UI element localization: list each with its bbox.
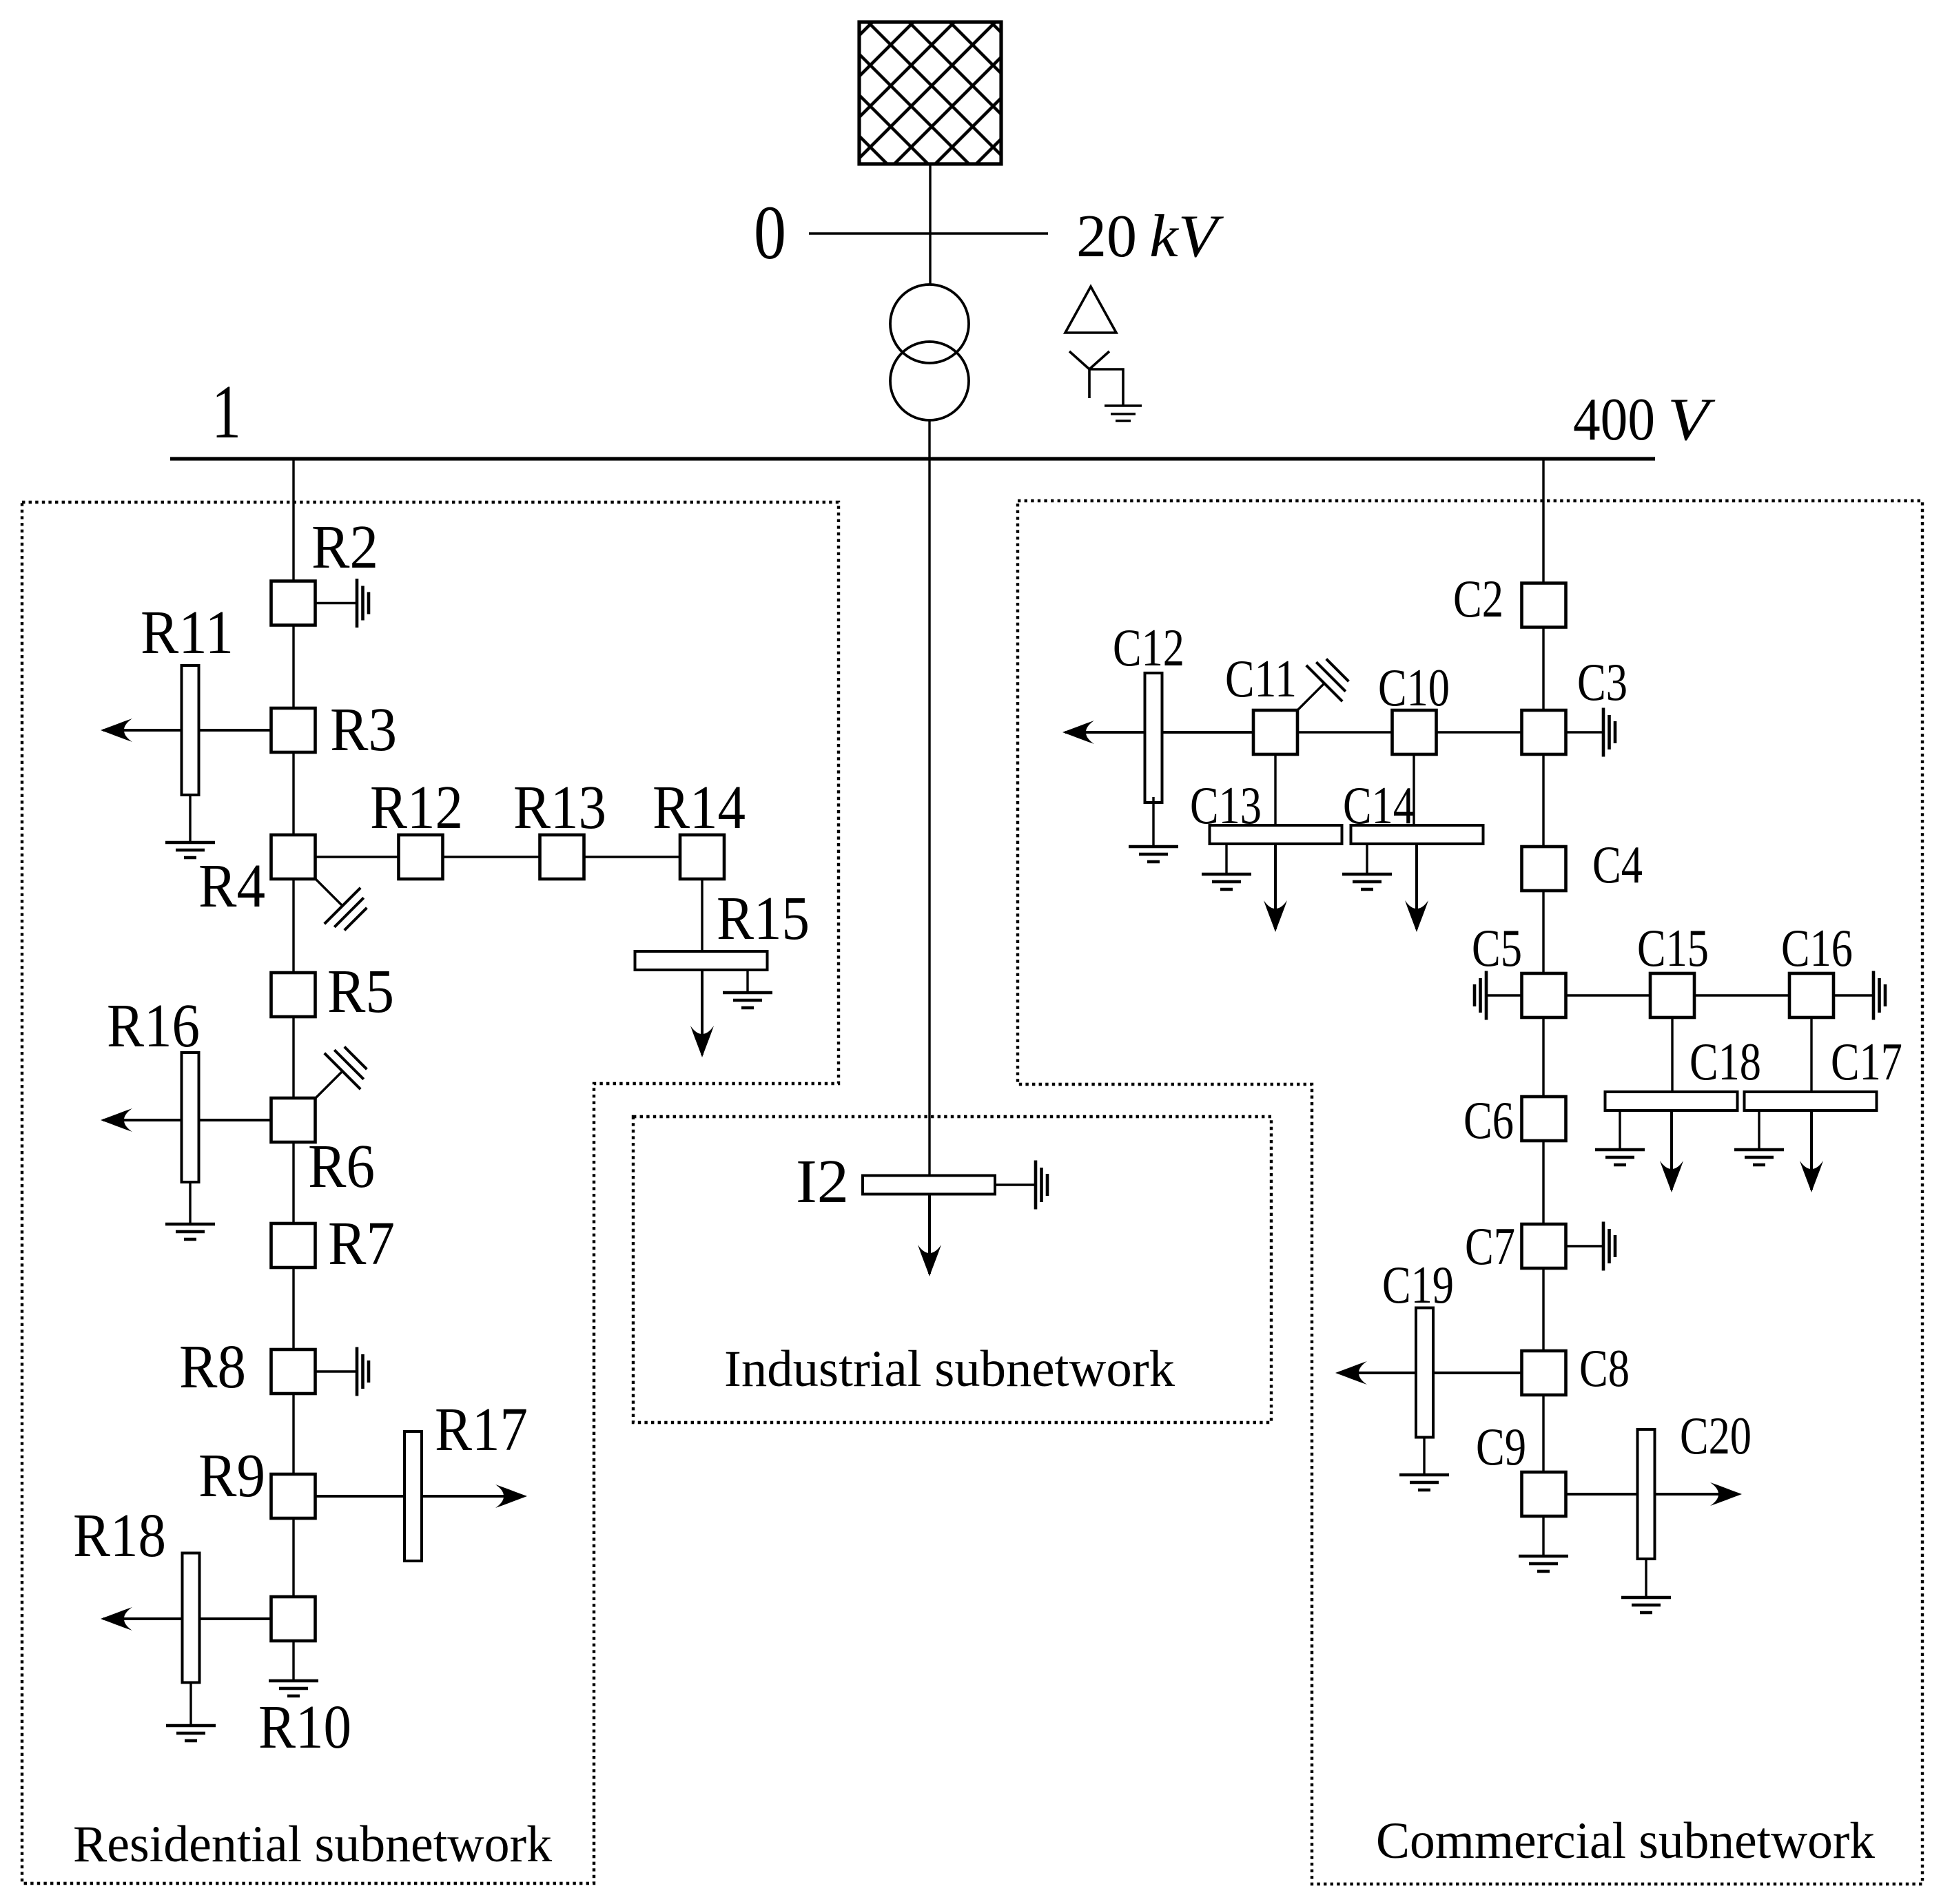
wire C10-C11 xyxy=(1297,731,1392,733)
svg-text:1: 1 xyxy=(212,370,241,455)
wire R4-R12 xyxy=(316,856,398,858)
continuation hatch at R6 xyxy=(316,1047,367,1098)
load C20 xyxy=(1638,1429,1655,1559)
arrow below C14 xyxy=(1405,844,1428,932)
load I2 xyxy=(863,1176,995,1194)
arrow below C13 xyxy=(1264,844,1287,932)
svg-text:R9: R9 xyxy=(198,1442,265,1510)
residential feeder wire from bus 1 xyxy=(292,459,294,581)
commercial subnetwork dotted boundary xyxy=(1018,501,1922,1884)
node R2 xyxy=(271,581,316,625)
ground at C16 xyxy=(1834,971,1885,1020)
commercial feeder wire from bus 1 xyxy=(1542,459,1544,583)
ground below C20 xyxy=(1621,1559,1671,1613)
svg-text:R15: R15 xyxy=(717,884,810,953)
svg-text:R5: R5 xyxy=(327,958,394,1026)
wire grid to transformer xyxy=(929,164,931,285)
ground at R2 xyxy=(316,579,369,628)
ground below R15 xyxy=(723,970,772,1008)
svg-text:C9: C9 xyxy=(1476,1417,1526,1476)
wire C6-C7 xyxy=(1542,1141,1544,1224)
svg-text:C7: C7 xyxy=(1465,1217,1515,1276)
wire C15-C18 xyxy=(1671,1017,1673,1092)
svg-text:C16: C16 xyxy=(1781,918,1853,977)
wire R8-R9 xyxy=(292,1394,294,1474)
svg-text:R17: R17 xyxy=(435,1396,528,1464)
continuation hatch at C11 xyxy=(1297,659,1348,710)
load C12 xyxy=(1145,673,1162,803)
node C6 xyxy=(1522,1097,1566,1141)
svg-text:R18: R18 xyxy=(73,1502,166,1570)
node R6 xyxy=(271,1098,316,1142)
svg-text:R8: R8 xyxy=(179,1333,246,1401)
svg-text:C8: C8 xyxy=(1579,1338,1630,1398)
node R8 xyxy=(271,1349,316,1394)
load feeder arrow at R3 xyxy=(101,718,271,742)
wire C16-C17 xyxy=(1810,1017,1812,1092)
ground below C9 xyxy=(1519,1517,1568,1571)
transformer T1 xyxy=(890,284,969,420)
svg-text:C6: C6 xyxy=(1464,1090,1514,1150)
ground below R11 xyxy=(165,795,215,858)
wire C4-C5 xyxy=(1542,891,1544,973)
wire R13-R14 xyxy=(584,856,680,858)
svg-text:C3: C3 xyxy=(1577,652,1627,712)
node C4 xyxy=(1522,847,1566,891)
node C10 xyxy=(1393,710,1437,754)
wire C11-C13 xyxy=(1274,754,1276,825)
continuation hatch at R4 xyxy=(316,879,367,930)
svg-text:C10: C10 xyxy=(1378,658,1450,717)
svg-text:C2: C2 xyxy=(1453,569,1503,628)
node C2 xyxy=(1522,583,1566,628)
wire R9-R10 xyxy=(292,1518,294,1597)
load feeder arrow at C11 xyxy=(1062,721,1253,744)
node C9 xyxy=(1522,1472,1566,1516)
node C3 xyxy=(1522,710,1566,754)
ground at I2 xyxy=(995,1161,1047,1210)
ground below C13 xyxy=(1202,844,1251,889)
load R11 xyxy=(182,665,199,795)
svg-text:R10: R10 xyxy=(258,1693,351,1761)
node C5 xyxy=(1522,973,1566,1017)
wire C5-C6 xyxy=(1542,1017,1544,1097)
svg-text:I2: I2 xyxy=(796,1148,849,1216)
load C18 xyxy=(1605,1092,1738,1110)
node C15 xyxy=(1650,973,1694,1017)
load C17 xyxy=(1745,1092,1877,1110)
arrow below I2 xyxy=(918,1194,941,1276)
wire C15-C16 xyxy=(1694,994,1789,996)
svg-text:Industrial subnetwork: Industrial subnetwork xyxy=(724,1341,1175,1398)
wire C7-C8 xyxy=(1542,1268,1544,1351)
node C16 xyxy=(1789,973,1834,1017)
wire transformer to bus 1 and industrial feeder xyxy=(928,420,930,1175)
svg-text:C19: C19 xyxy=(1382,1255,1454,1314)
svg-text:C18: C18 xyxy=(1690,1032,1761,1091)
ground below C12 xyxy=(1129,797,1178,862)
load C14 xyxy=(1351,825,1483,844)
ground below C14 xyxy=(1342,844,1392,889)
wire R4-R5 xyxy=(292,879,294,973)
load feeder arrow at R6 xyxy=(101,1108,271,1132)
load R16 xyxy=(182,1053,199,1182)
node C11 xyxy=(1253,710,1297,754)
node R12 xyxy=(399,835,443,879)
load feeder arrow at R9 xyxy=(316,1484,527,1508)
ground below R16 xyxy=(165,1182,215,1239)
node C7 xyxy=(1522,1224,1566,1268)
svg-text:R13: R13 xyxy=(513,774,606,842)
svg-text:R6: R6 xyxy=(308,1132,375,1201)
svg-text:R16: R16 xyxy=(107,992,200,1060)
node R7 xyxy=(271,1223,316,1267)
svg-text:R3: R3 xyxy=(330,696,397,764)
svg-text:C11: C11 xyxy=(1225,649,1297,708)
arrow below C17 xyxy=(1800,1110,1823,1192)
ground at C5 xyxy=(1475,971,1521,1020)
load C13 xyxy=(1210,825,1342,844)
wire R2-R3 xyxy=(292,625,294,708)
svg-text:R2: R2 xyxy=(311,513,378,581)
svg-text:Commercial subnetwork: Commercial subnetwork xyxy=(1376,1812,1875,1870)
ground below C18 xyxy=(1595,1110,1645,1165)
svg-text:C12: C12 xyxy=(1113,618,1184,677)
wire R7-R8 xyxy=(292,1267,294,1349)
wire C3-C10 xyxy=(1437,731,1521,733)
svg-text:C15: C15 xyxy=(1637,918,1709,977)
wire R12-R13 xyxy=(443,856,540,858)
wire R14-R15 xyxy=(701,879,703,951)
node R4 xyxy=(271,835,316,879)
load feeder arrow at C9 xyxy=(1566,1482,1742,1506)
node R3 xyxy=(271,708,316,752)
ground below C19 xyxy=(1399,1437,1449,1490)
ground at C3 xyxy=(1566,708,1615,757)
load feeder arrow at C8 xyxy=(1335,1361,1521,1385)
svg-text:C20: C20 xyxy=(1680,1406,1752,1465)
svg-text:C5: C5 xyxy=(1472,918,1522,977)
svg-text:R4: R4 xyxy=(198,852,265,920)
wye neutral ground xyxy=(1089,369,1142,421)
svg-text:C4: C4 xyxy=(1592,835,1643,894)
bus 1 (400 V busbar) xyxy=(170,457,1655,460)
ground at C7 xyxy=(1566,1222,1615,1271)
svg-text:R11: R11 xyxy=(141,599,234,667)
wye winding symbol xyxy=(1069,351,1109,398)
wire C10-C14 xyxy=(1413,754,1415,825)
wire C2-C3 xyxy=(1542,628,1544,710)
wire R5-R6 xyxy=(292,1017,294,1098)
svg-text:R12: R12 xyxy=(370,774,463,842)
wire R3-R4 xyxy=(292,752,294,836)
svg-text:C17: C17 xyxy=(1831,1032,1902,1091)
svg-text:R7: R7 xyxy=(328,1210,395,1278)
industrial subnetwork dotted boundary xyxy=(633,1117,1271,1422)
arrow below C18 xyxy=(1660,1110,1683,1192)
load C19 xyxy=(1416,1308,1433,1438)
wire C3-C4 xyxy=(1542,754,1544,847)
node R5 xyxy=(271,973,316,1017)
wire R6-R7 xyxy=(292,1142,294,1223)
load R15 xyxy=(635,951,768,970)
svg-text:C13: C13 xyxy=(1190,776,1262,835)
arrow below R15 xyxy=(690,970,714,1057)
node R9 xyxy=(271,1474,316,1518)
load R17 xyxy=(404,1431,422,1561)
residential subnetwork dotted boundary xyxy=(22,502,839,1883)
wire C5-C15 xyxy=(1566,994,1650,996)
node R13 xyxy=(540,835,584,879)
svg-text:20kV: 20kV xyxy=(1076,203,1224,270)
external grid source xyxy=(859,22,1001,164)
svg-text:Residential subnetwork: Residential subnetwork xyxy=(73,1816,552,1873)
svg-text:0: 0 xyxy=(754,191,786,276)
svg-text:R14: R14 xyxy=(653,774,746,842)
delta winding symbol xyxy=(1065,287,1116,333)
wire C8-C9 xyxy=(1542,1395,1544,1472)
ground below R18 xyxy=(166,1682,216,1741)
node C8 xyxy=(1522,1351,1566,1395)
ground at R8 xyxy=(316,1347,369,1396)
svg-text:C14: C14 xyxy=(1343,776,1415,835)
load R18 xyxy=(183,1553,200,1683)
svg-text:400V: 400V xyxy=(1573,386,1716,453)
node R14 xyxy=(680,835,724,879)
bus 0 (20 kV busbar) xyxy=(809,232,1048,235)
ground below R10 xyxy=(269,1641,318,1696)
load feeder arrow at R10 xyxy=(101,1607,271,1631)
node R10 xyxy=(271,1597,316,1641)
ground below C17 xyxy=(1734,1110,1784,1165)
